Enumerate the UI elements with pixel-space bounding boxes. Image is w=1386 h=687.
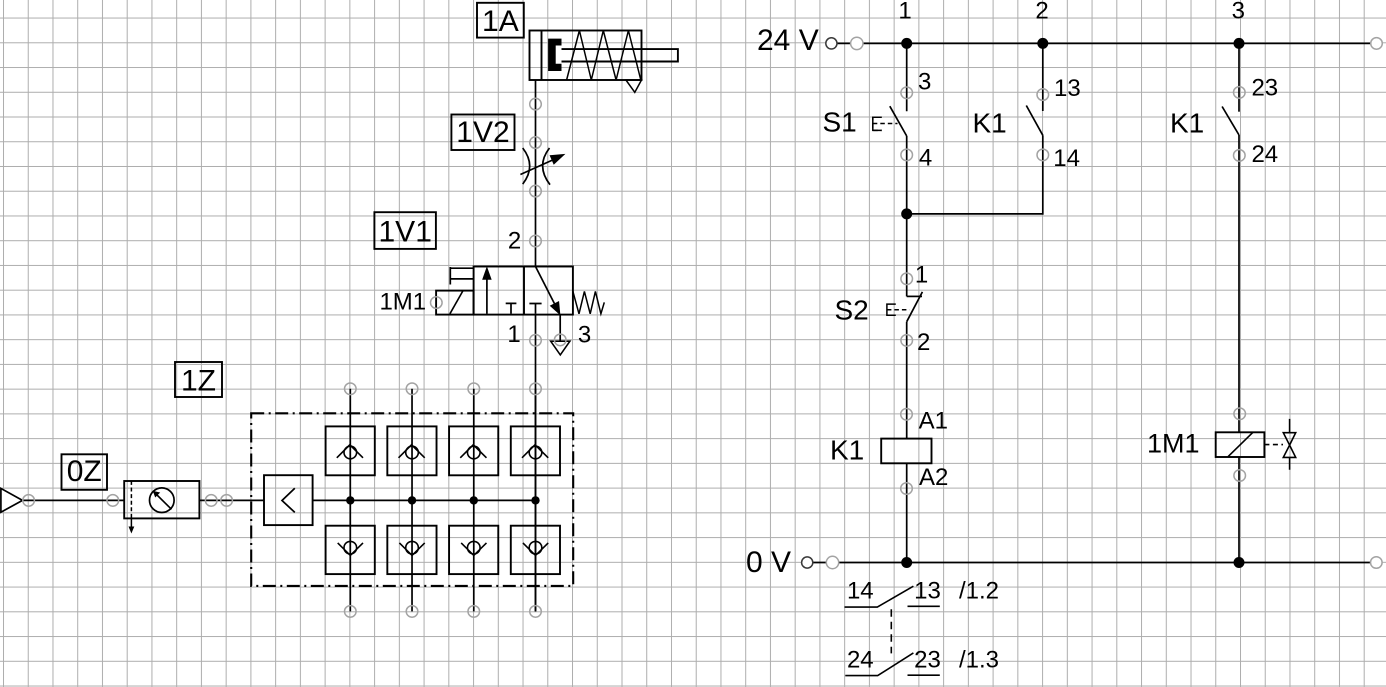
port circle cylinder 1A [530,98,542,110]
check valve square column 3 bottom [449,526,498,574]
port circle column 2 bottom [406,606,418,618]
port circle 13 [1037,89,1049,101]
wire K1 coil to 0V [906,463,908,562]
port circle column 4 top [530,383,542,395]
check valve square column 4 top [511,426,560,475]
relay contact K1 13-14 NO [1026,106,1043,136]
terminal circle 24V inner [826,38,837,49]
switch S2 pushbutton NC contact [887,292,923,322]
wire manifold column 2 [411,389,413,612]
port circle column 1 top [345,383,357,395]
dashed link to valve symbol [1264,444,1283,446]
wire column 1 upper [906,43,908,111]
svg-text:1A: 1A [482,5,519,38]
wire contact to junction wire [907,135,1043,214]
port circle column 4 bottom [530,606,542,618]
junction node 0V column 3 [1234,557,1245,568]
wire contact to 1M1 coil [1238,135,1240,432]
svg-text:1V2: 1V2 [456,116,509,149]
port circle 24 [1234,150,1246,162]
air service unit 0Z [124,481,199,534]
junction node 24V column 3 [1234,38,1245,49]
solenoid 1M1 actuator [436,291,474,315]
port circle column 1 bottom [345,606,357,618]
port circle A2 [901,483,913,495]
valve 1V1 3/2-way body [474,267,573,315]
contact mirror 24-23 /1.3 [845,647,999,676]
svg-text:1V1: 1V1 [379,215,432,248]
port circle source outlet [23,495,35,507]
svg-text:1Z: 1Z [181,364,216,397]
port circle 4 [901,149,913,161]
compressed air source triangle [1,488,23,512]
svg-text:K1: K1 [973,107,1007,138]
wire 0V rail [813,562,1371,564]
switch S1 pushbutton NO contact [873,106,907,136]
svg-text:1: 1 [507,321,520,348]
terminal circle 24V right end [1371,38,1383,50]
junction manifold column 1 [346,496,354,504]
wire 24V rail [837,42,1371,44]
svg-text:3: 3 [918,69,931,96]
label box 0Z [62,454,108,490]
svg-text:A1: A1 [919,407,948,434]
label box 1V2 [451,115,514,151]
check valve square column 3 top [449,426,498,475]
exhaust triangle port 3 [551,341,570,355]
label box 1Z [175,362,222,397]
mechanical link dashed [890,609,892,653]
port circle 14 [1037,149,1049,161]
wire junction to S2 [906,214,908,297]
wire port 3 [559,315,561,341]
port circle column 2 top [406,383,418,395]
wire S2 to K1 coil [906,322,908,439]
port circle 1M1 bottom [1234,470,1246,482]
wire S1 to junction [906,136,908,214]
svg-text:2: 2 [1035,0,1048,25]
cylinder 1A single-acting spring return [530,31,678,93]
terminal circle 0V right end [1371,557,1383,569]
port circle column 3 bottom [468,606,480,618]
svg-text:1M1: 1M1 [379,289,426,316]
wire column 3 upper [1238,43,1240,111]
svg-text:1: 1 [915,262,928,289]
port circle 1M1 top [1234,408,1246,420]
svg-text:0Z: 0Z [67,455,102,488]
port circle 1 [530,335,542,347]
wire main vertical pneumatic line [535,80,537,267]
svg-text:A2: A2 [919,464,948,491]
svg-text:14: 14 [847,578,874,605]
terminal circle 0V outer [826,556,838,568]
port circle column 3 top [468,383,480,395]
wire manifold column 1 [349,389,351,612]
port circle A1 [901,409,913,421]
svg-text:S2: S2 [835,295,869,326]
return spring [573,291,604,313]
terminal circle 0V inner [802,557,813,568]
svg-text:13: 13 [1054,75,1081,102]
svg-text:23: 23 [1251,74,1278,101]
terminal circle 24V outer [851,37,863,49]
wire manifold column 4 [535,389,537,612]
port circle 2 S2 [901,335,913,347]
check valve square column 1 bottom [326,526,375,574]
svg-text:K1: K1 [1170,108,1204,139]
port circle before service unit [107,495,119,507]
svg-text:1: 1 [898,0,911,25]
port circle 3 [901,87,913,99]
junction node 24V column 2 [1037,38,1048,49]
svg-text:2: 2 [508,228,521,255]
solenoid coil 1M1 [1216,432,1265,457]
port circle manifold inlet [221,495,233,507]
valve cross-reference symbol [1283,419,1295,470]
junction manifold column 4 [531,496,539,504]
svg-text:3: 3 [578,322,591,349]
svg-text:13: 13 [914,578,941,605]
junction manifold column 3 [470,496,478,504]
svg-text:3: 3 [1232,0,1245,25]
pilot lines [450,267,473,285]
junction node below S1 [901,208,912,219]
svg-text:23: 23 [914,647,941,674]
check valve square column 2 top [387,426,436,475]
throttle valve 1V2 [520,137,564,197]
junction manifold column 2 [408,496,416,504]
check valve square column 4 bottom [511,526,560,574]
manifold inlet check square [264,475,313,525]
wire manifold gallery [313,499,536,501]
contact mirror 14-13 /1.2 [845,578,1000,608]
wire manifold column 3 [473,389,475,612]
label box 1V1 [374,212,436,249]
svg-text:24: 24 [1251,141,1278,168]
wire column 2 upper [1042,43,1044,111]
relay contact K1 23-24 NO [1222,107,1239,136]
svg-text:K1: K1 [830,434,864,465]
solenoid port circle [431,297,443,309]
junction node 0V column 1 [901,557,912,568]
svg-text:24 V: 24 V [757,24,819,57]
svg-text:1M1: 1M1 [1147,428,1200,458]
port circle 23 [1234,87,1246,99]
label box 1A [477,3,524,38]
svg-text:24: 24 [847,647,874,674]
junction node 24V column 1 [901,38,912,49]
port circle 1 S2 [901,273,913,285]
svg-text:2: 2 [917,329,930,356]
svg-text:4: 4 [919,144,932,171]
svg-text:S1: S1 [823,107,857,138]
svg-text:/1.3: /1.3 [959,647,999,674]
port circle 3 [554,334,566,346]
port circle after service unit [205,495,217,507]
wire pneumatic supply horizontal [23,499,265,501]
manifold 1Z boundary [251,413,573,586]
check valve square column 1 top [326,426,375,475]
svg-text:14: 14 [1053,145,1080,172]
check valve square column 2 bottom [387,526,436,574]
svg-text:/1.2: /1.2 [959,578,999,605]
wire 1M1 coil to 0V [1238,457,1240,563]
port circle 2 [530,235,542,247]
relay coil K1 [881,439,931,464]
svg-text:0 V: 0 V [746,546,791,579]
wire port 1 to manifold [535,315,537,612]
